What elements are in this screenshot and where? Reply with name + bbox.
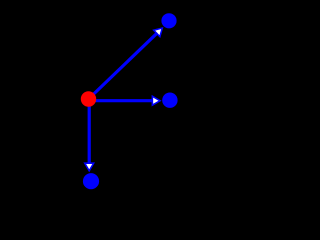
node C bottom (blue) <box>83 173 99 189</box>
wire edge red->right node <box>89 99 153 102</box>
wire edge red->top-right node <box>89 33 157 99</box>
node A top-right (blue) <box>161 13 176 28</box>
node B right (blue) <box>162 93 177 108</box>
arrowhead bottom (blue outline, white core) <box>83 162 95 172</box>
arrowhead right (blue outline, white core) <box>152 95 162 107</box>
arrowhead top-right (blue outline, white core) <box>152 27 163 38</box>
wire edge red->bottom node <box>88 99 91 163</box>
node source (red) <box>81 91 96 106</box>
